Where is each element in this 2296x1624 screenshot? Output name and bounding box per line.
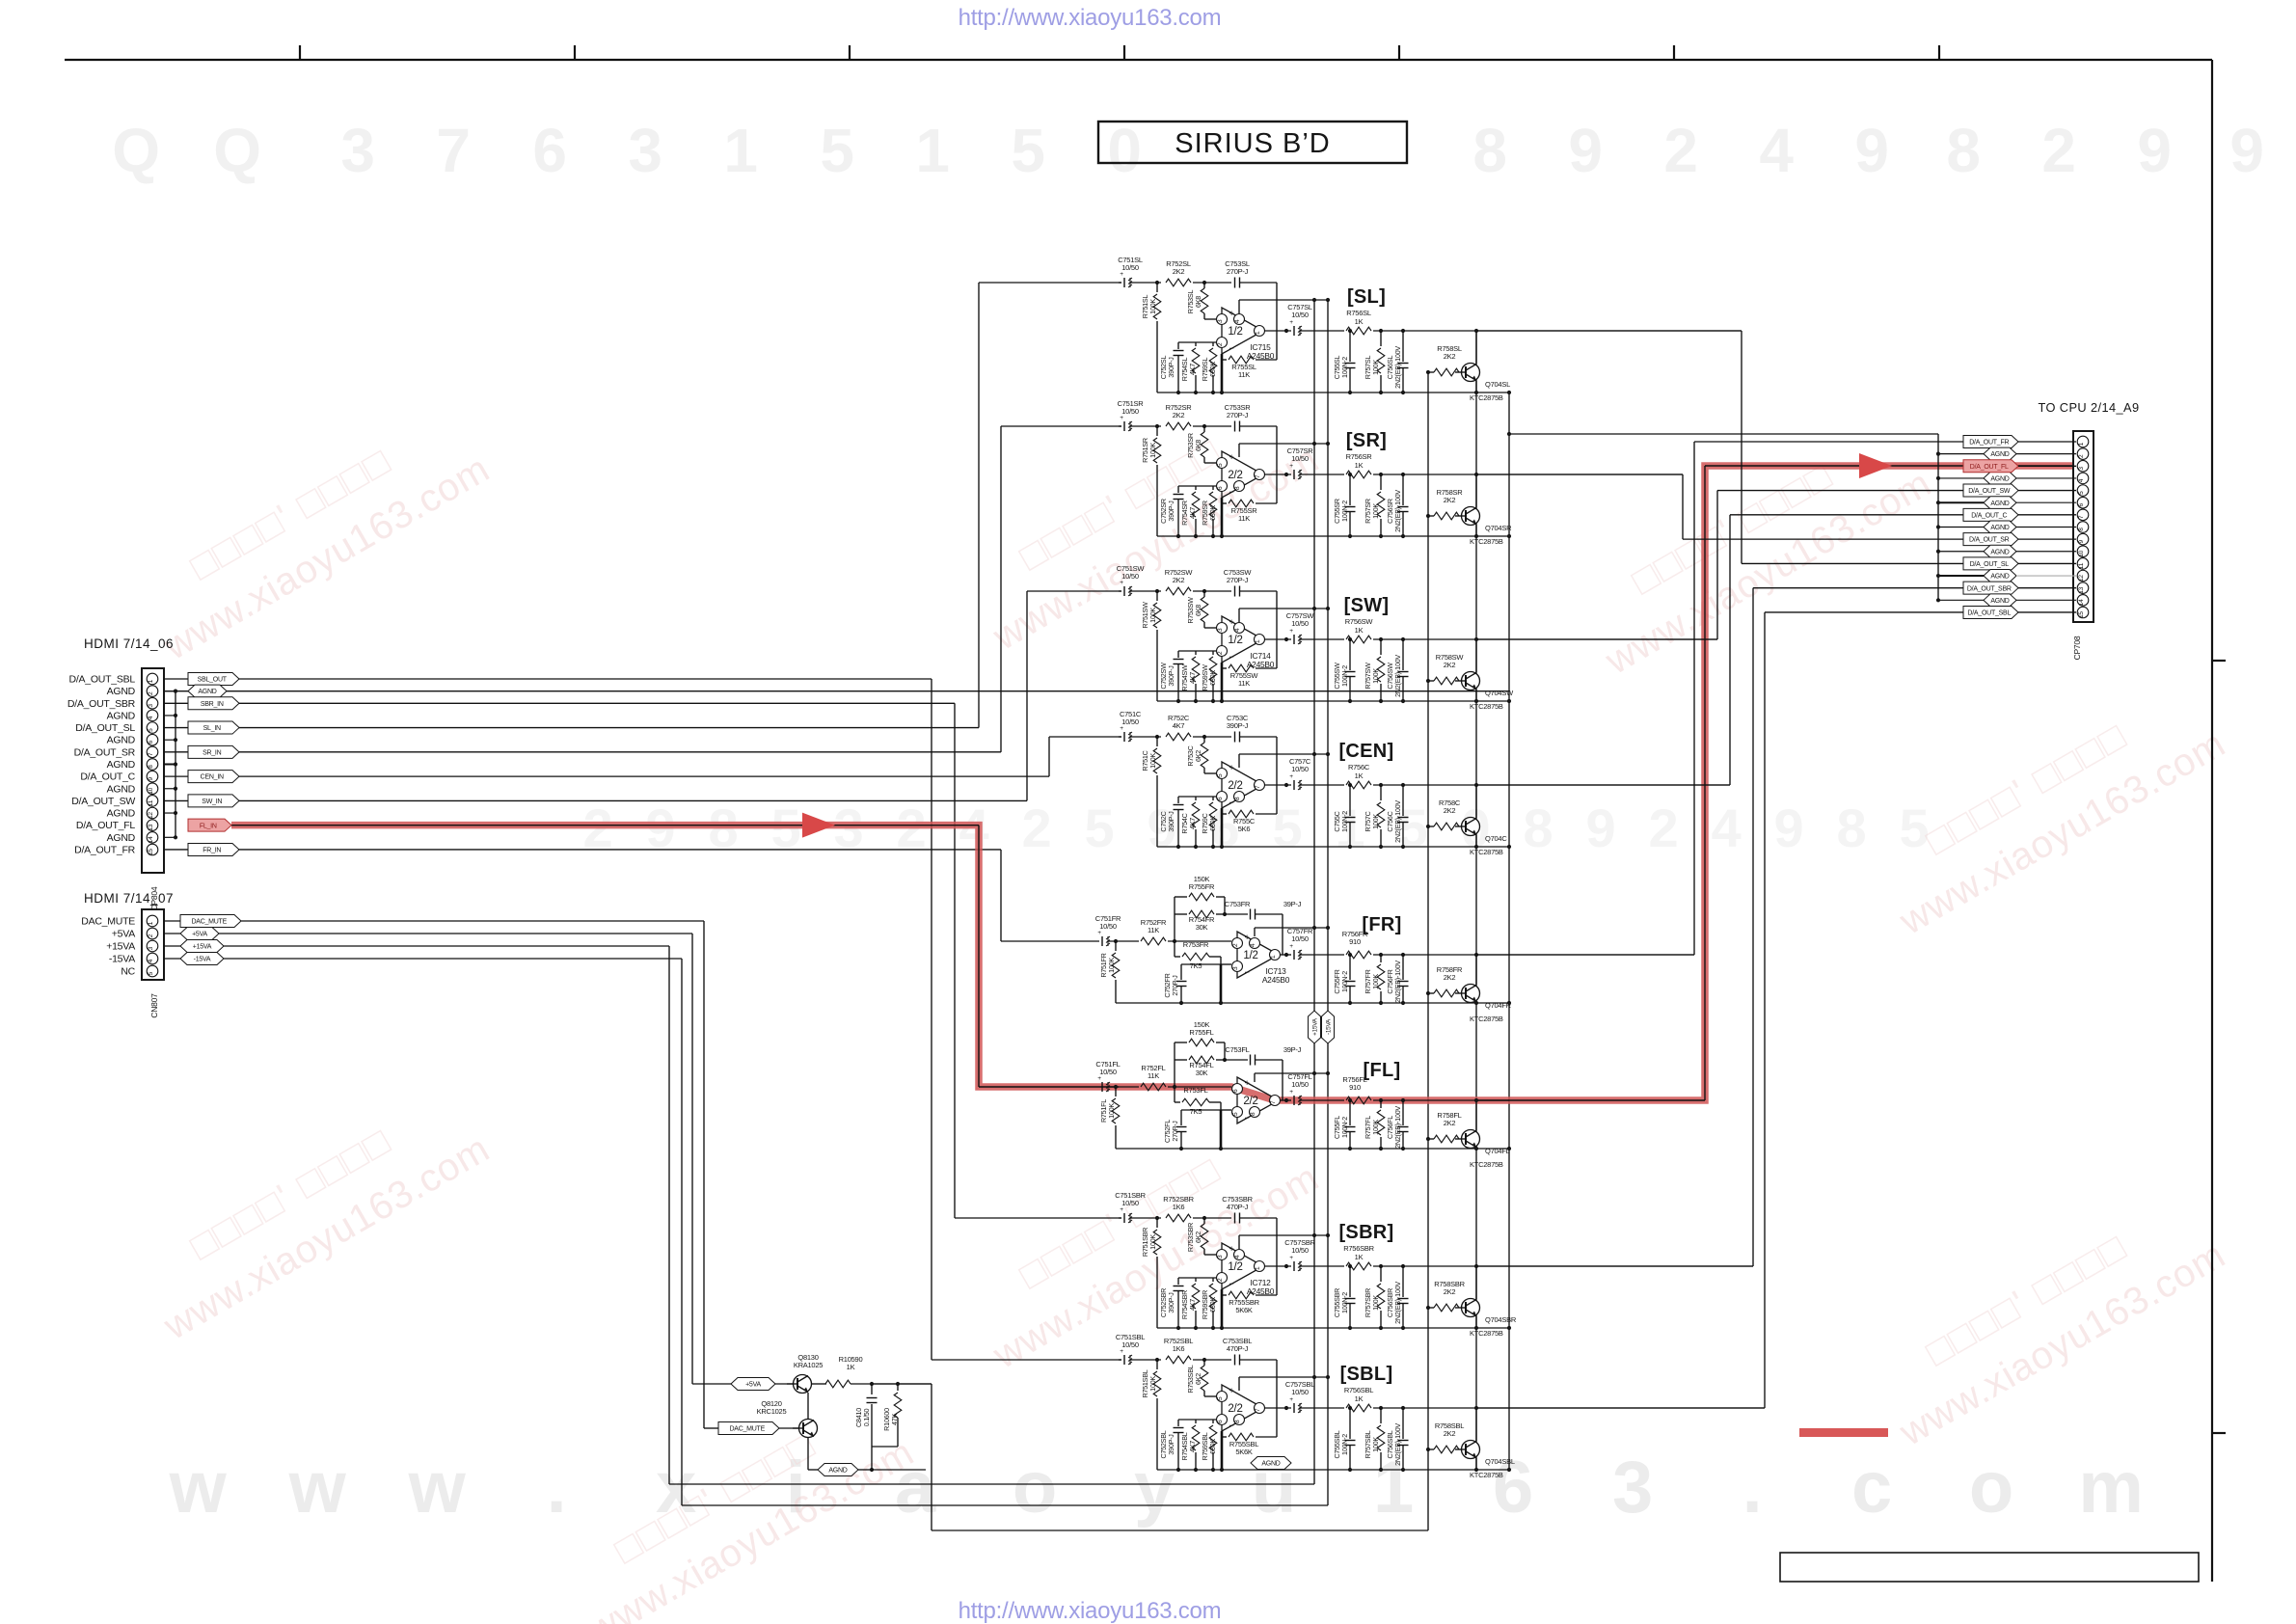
svg-text:2: 2 — [148, 691, 154, 695]
svg-text:100N-2: 100N-2 — [1340, 1434, 1349, 1455]
svg-text:4K7: 4K7 — [1188, 818, 1197, 829]
svg-text:D/A_OUT_FR: D/A_OUT_FR — [74, 844, 136, 855]
svg-text:+: + — [1289, 1396, 1293, 1403]
svg-text:2N2(EB)-100V: 2N2(EB)-100V — [1393, 490, 1402, 532]
svg-text:KTC2875B: KTC2875B — [1470, 848, 1503, 856]
svg-text:Q: Q — [213, 116, 261, 185]
svg-text:7: 7 — [1255, 1408, 1261, 1412]
svg-text:1K6: 1K6 — [1173, 1203, 1185, 1211]
svg-text:c: c — [1851, 1447, 1892, 1529]
svg-text:10: 10 — [148, 787, 154, 794]
svg-text:2N2(EB)-100V: 2N2(EB)-100V — [1393, 1106, 1402, 1149]
svg-text:1: 1 — [1255, 1266, 1261, 1270]
svg-text:910: 910 — [1349, 1083, 1361, 1092]
svg-text:100K: 100K — [1148, 443, 1157, 458]
svg-text:[FR]: [FR] — [1362, 914, 1401, 935]
svg-text:−: − — [1229, 487, 1233, 497]
svg-text:KTC2875B: KTC2875B — [1470, 537, 1503, 546]
svg-text:1: 1 — [1255, 639, 1261, 643]
svg-text:1K: 1K — [1355, 1253, 1364, 1261]
svg-text:+: + — [1120, 725, 1123, 732]
svg-text:+5VA: +5VA — [112, 929, 135, 940]
svg-text:4K7: 4K7 — [1188, 672, 1197, 684]
svg-text:D/A_OUT_SW: D/A_OUT_SW — [71, 796, 135, 807]
svg-text:DAC_MUTE: DAC_MUTE — [729, 1426, 765, 1433]
svg-text:2: 2 — [1663, 116, 1697, 185]
svg-text:[FL]: [FL] — [1364, 1060, 1401, 1081]
svg-text:3: 3 — [148, 946, 154, 950]
svg-text:2: 2 — [148, 934, 154, 937]
svg-text:7K5: 7K5 — [1190, 1107, 1202, 1116]
svg-text:w: w — [408, 1447, 467, 1529]
svg-text:1/2: 1/2 — [1228, 635, 1242, 646]
svg-text:14: 14 — [148, 836, 154, 843]
svg-text:8: 8 — [1234, 1420, 1241, 1423]
svg-text:AGND: AGND — [107, 710, 136, 721]
svg-text:8: 8 — [1234, 797, 1241, 800]
svg-text:−: − — [1244, 967, 1249, 977]
svg-text:10/50: 10/50 — [1121, 263, 1139, 272]
svg-text:Q: Q — [112, 116, 160, 185]
svg-text:2K2: 2K2 — [1444, 661, 1456, 669]
svg-text:1: 1 — [2078, 442, 2085, 446]
svg-text:AGND: AGND — [107, 832, 136, 844]
svg-text:1: 1 — [915, 116, 949, 185]
svg-text:AGND: AGND — [1990, 549, 2009, 555]
svg-text:2: 2 — [1232, 943, 1239, 947]
svg-text:10/50: 10/50 — [1291, 934, 1309, 943]
svg-text:AGND: AGND — [107, 783, 136, 795]
svg-text:+: + — [1289, 773, 1293, 780]
svg-text:8: 8 — [2078, 528, 2085, 531]
svg-text:1K: 1K — [1355, 771, 1364, 780]
svg-text:D/A_OUT_C: D/A_OUT_C — [1971, 512, 2007, 519]
svg-text:SBR_IN: SBR_IN — [201, 701, 224, 708]
svg-text:Q704SW: Q704SW — [1485, 689, 1514, 697]
svg-text:390P-J: 390P-J — [1167, 501, 1175, 522]
svg-text:A245B0: A245B0 — [1247, 660, 1275, 669]
svg-text:10/50: 10/50 — [1291, 454, 1309, 463]
svg-text:2K2: 2K2 — [1173, 267, 1185, 276]
svg-text:10/50: 10/50 — [1099, 1068, 1117, 1076]
svg-text:−: − — [1229, 1421, 1233, 1430]
svg-text:100N-2: 100N-2 — [1340, 971, 1349, 992]
svg-text:2K2: 2K2 — [1444, 1119, 1456, 1127]
svg-text:3: 3 — [1217, 628, 1224, 632]
svg-text:2K2: 2K2 — [1444, 973, 1456, 982]
svg-text:3: 3 — [628, 116, 662, 185]
svg-text:100N-2: 100N-2 — [1340, 501, 1349, 522]
svg-text:270P-J: 270P-J — [1171, 1121, 1179, 1142]
svg-text:2/2: 2/2 — [1228, 470, 1242, 481]
svg-text:5: 5 — [1398, 798, 1428, 858]
svg-text:SW_IN: SW_IN — [202, 798, 222, 805]
svg-text:KRA1025: KRA1025 — [794, 1361, 823, 1369]
svg-text:+15VA: +15VA — [193, 944, 212, 951]
svg-text:5K6K: 5K6K — [1235, 1448, 1253, 1456]
svg-text:11K: 11K — [1238, 679, 1250, 688]
svg-text:100N-2: 100N-2 — [1340, 1117, 1349, 1138]
svg-text:680K: 680K — [1208, 1439, 1217, 1454]
svg-text:9: 9 — [2078, 539, 2085, 543]
svg-text:8: 8 — [1472, 116, 1506, 185]
svg-text:1K: 1K — [1355, 1394, 1364, 1403]
svg-text:8: 8 — [1250, 1112, 1256, 1116]
svg-text:AGND: AGND — [107, 808, 136, 820]
svg-text:15: 15 — [2078, 611, 2085, 618]
svg-text:6K2: 6K2 — [1194, 750, 1202, 762]
svg-text:[SBL]: [SBL] — [1340, 1364, 1393, 1385]
svg-text:http://www.xiaoyu163.com: http://www.xiaoyu163.com — [959, 1598, 1222, 1624]
svg-text:1K: 1K — [1355, 461, 1364, 470]
svg-text:6: 6 — [148, 741, 154, 744]
svg-text:CEN_IN: CEN_IN — [201, 774, 224, 781]
svg-text:Q704C: Q704C — [1485, 834, 1507, 843]
svg-text:2N2(EB)-100V: 2N2(EB)-100V — [1393, 655, 1402, 697]
svg-text:6K2: 6K2 — [1194, 1373, 1202, 1385]
svg-text:4: 4 — [1234, 319, 1241, 323]
svg-text:D/A_OUT_SR: D/A_OUT_SR — [74, 746, 136, 758]
svg-text:1K6: 1K6 — [1173, 1344, 1185, 1353]
svg-text:CP708: CP708 — [2072, 636, 2082, 660]
svg-text:8: 8 — [1524, 798, 1553, 858]
svg-text:Q704SR: Q704SR — [1485, 524, 1512, 532]
svg-text:AGND: AGND — [1990, 525, 2009, 531]
svg-text:D/A_OUT_FR: D/A_OUT_FR — [1969, 440, 2009, 447]
svg-text:1/2: 1/2 — [1228, 326, 1242, 338]
svg-text:1K: 1K — [847, 1363, 855, 1371]
svg-text:+: + — [1120, 1206, 1123, 1213]
svg-text:6K2: 6K2 — [1194, 1232, 1202, 1243]
svg-text:4: 4 — [1250, 943, 1256, 947]
svg-text:100N-2: 100N-2 — [1340, 357, 1349, 378]
svg-text:5: 5 — [148, 971, 154, 975]
svg-text:13: 13 — [2078, 586, 2085, 593]
svg-text:AGND: AGND — [1990, 574, 2009, 581]
svg-text:5: 5 — [2078, 491, 2085, 495]
svg-text:14: 14 — [2078, 599, 2085, 606]
svg-text:0.1/50: 0.1/50 — [862, 1409, 871, 1427]
svg-text:2K2: 2K2 — [1444, 1429, 1456, 1438]
svg-text:KTC2875B: KTC2875B — [1470, 1329, 1503, 1338]
svg-text:2K2: 2K2 — [1173, 576, 1185, 584]
svg-text:A245B0: A245B0 — [1247, 1286, 1275, 1296]
svg-text:270P-J: 270P-J — [1227, 411, 1249, 420]
svg-text:390P-J: 390P-J — [1167, 357, 1175, 378]
svg-text:[CEN]: [CEN] — [1338, 741, 1393, 762]
svg-text:y: y — [1134, 1447, 1175, 1529]
svg-text:3: 3 — [148, 704, 154, 708]
svg-text:1: 1 — [1255, 331, 1261, 335]
svg-text:100K: 100K — [1148, 1376, 1157, 1392]
svg-text:D/A_OUT_SW: D/A_OUT_SW — [1968, 488, 2011, 495]
svg-text:5: 5 — [1232, 1112, 1239, 1116]
svg-text:1/2: 1/2 — [1228, 1261, 1242, 1273]
svg-text:+: + — [1120, 415, 1123, 421]
svg-text:KTC2875B: KTC2875B — [1470, 702, 1503, 711]
svg-text:7: 7 — [436, 116, 470, 185]
svg-text:9: 9 — [2137, 116, 2171, 185]
svg-text:D/A_OUT_SBR: D/A_OUT_SBR — [1967, 585, 2012, 592]
svg-text:6: 6 — [1217, 1420, 1224, 1423]
svg-text:AGND: AGND — [1990, 598, 2009, 605]
svg-text:9: 9 — [1854, 116, 1888, 185]
svg-text:100N-2: 100N-2 — [1340, 811, 1349, 832]
svg-text:9: 9 — [2229, 116, 2263, 185]
svg-text:+: + — [1097, 1075, 1101, 1082]
svg-text:39P-J: 39P-J — [1283, 1045, 1302, 1054]
svg-text:100K: 100K — [1148, 753, 1157, 769]
svg-text:7: 7 — [1255, 474, 1261, 478]
svg-text:3: 3 — [1232, 966, 1239, 970]
svg-text:Q704SBL: Q704SBL — [1485, 1457, 1515, 1466]
svg-text:D/A_OUT_FL: D/A_OUT_FL — [76, 820, 136, 831]
svg-text:[SW]: [SW] — [1344, 595, 1390, 616]
svg-text:5: 5 — [1011, 116, 1044, 185]
svg-text:.: . — [1742, 1447, 1763, 1529]
svg-text:KRC1025: KRC1025 — [757, 1407, 787, 1416]
svg-text:1: 1 — [148, 679, 154, 683]
svg-text:2: 2 — [1217, 342, 1224, 346]
svg-text:10/50: 10/50 — [1291, 619, 1309, 628]
svg-text:D/A_OUT_FL: D/A_OUT_FL — [1970, 464, 2009, 471]
svg-text:3: 3 — [1217, 319, 1224, 323]
svg-text:10/50: 10/50 — [1099, 922, 1117, 931]
svg-text:KTC2875B: KTC2875B — [1470, 1160, 1503, 1169]
svg-text:270P-J: 270P-J — [1227, 267, 1249, 276]
svg-text:D/A_OUT_SBR: D/A_OUT_SBR — [68, 698, 136, 710]
svg-text:100K: 100K — [1371, 1120, 1380, 1135]
svg-text:-15VA: -15VA — [1325, 1018, 1332, 1035]
svg-text:6: 6 — [1217, 486, 1224, 490]
svg-text:4: 4 — [1234, 628, 1241, 632]
svg-text:390P-J: 390P-J — [1167, 665, 1175, 687]
svg-text:30K: 30K — [1196, 923, 1208, 932]
svg-text:5: 5 — [1217, 773, 1224, 777]
svg-text:2K2: 2K2 — [1173, 411, 1185, 420]
svg-text:KTC2875B: KTC2875B — [1470, 393, 1503, 402]
svg-text:1: 1 — [723, 116, 757, 185]
svg-text:D/A_OUT_SL: D/A_OUT_SL — [1970, 561, 2010, 568]
svg-text:100K: 100K — [1148, 1234, 1157, 1250]
svg-text:4: 4 — [2078, 478, 2085, 482]
svg-text:11K: 11K — [1148, 926, 1159, 934]
svg-text:8: 8 — [1946, 116, 1980, 185]
svg-text:FR_IN: FR_IN — [203, 848, 221, 854]
svg-text:9: 9 — [1568, 116, 1602, 185]
svg-text:7: 7 — [1270, 1100, 1277, 1104]
svg-text:[SL]: [SL] — [1347, 286, 1386, 308]
svg-text:4: 4 — [1234, 1255, 1241, 1259]
svg-text:7: 7 — [1255, 785, 1261, 789]
svg-text:2K2: 2K2 — [1444, 806, 1456, 815]
svg-text:0: 0 — [1107, 116, 1141, 185]
svg-text:910: 910 — [1349, 937, 1361, 946]
svg-text:6: 6 — [2078, 503, 2085, 507]
svg-text:[SBR]: [SBR] — [1338, 1222, 1393, 1243]
svg-text:A245B0: A245B0 — [1247, 351, 1275, 361]
svg-text:5K6K: 5K6K — [1235, 1306, 1253, 1314]
svg-text:100K: 100K — [1371, 1437, 1380, 1452]
svg-text:11K: 11K — [1238, 514, 1250, 523]
svg-text:7: 7 — [148, 752, 154, 756]
svg-text:100K: 100K — [1371, 814, 1380, 829]
svg-text:AGND: AGND — [107, 735, 136, 746]
svg-text:D/A_OUT_SBL: D/A_OUT_SBL — [1967, 610, 2011, 617]
svg-text:2/2: 2/2 — [1243, 1096, 1257, 1107]
svg-text:+: + — [1229, 763, 1233, 772]
svg-text:R753FL: R753FL — [1183, 1086, 1207, 1095]
svg-text:5: 5 — [148, 728, 154, 732]
svg-text:13: 13 — [148, 824, 154, 830]
svg-text:+: + — [1229, 1244, 1233, 1254]
svg-text:4K7: 4K7 — [1188, 1299, 1197, 1311]
svg-text:R753FR: R753FR — [1183, 940, 1209, 949]
svg-text:+: + — [1244, 933, 1249, 942]
svg-text:D/A_OUT_SBL: D/A_OUT_SBL — [69, 674, 136, 686]
svg-text:R756C: R756C — [1348, 763, 1370, 771]
svg-text:100K: 100K — [1371, 503, 1380, 519]
svg-text:R756SW: R756SW — [1345, 617, 1374, 626]
svg-text:8: 8 — [1234, 486, 1241, 490]
svg-text:+: + — [1289, 319, 1293, 326]
svg-text:o: o — [1969, 1447, 2013, 1529]
svg-text:-15VA: -15VA — [194, 957, 211, 963]
svg-text:NC: NC — [121, 966, 135, 978]
svg-text:Q704SBR: Q704SBR — [1485, 1315, 1517, 1324]
svg-text:DAC_MUTE: DAC_MUTE — [81, 916, 135, 928]
svg-text:AGND: AGND — [107, 759, 136, 771]
svg-text:http://www.xiaoyu163.com: http://www.xiaoyu163.com — [959, 5, 1222, 31]
svg-text:680K: 680K — [1208, 1297, 1217, 1313]
svg-text:2K2: 2K2 — [1444, 352, 1456, 361]
svg-text:8: 8 — [1837, 798, 1867, 858]
svg-text:5: 5 — [1085, 798, 1115, 858]
svg-text:+: + — [1120, 580, 1123, 586]
svg-text:11: 11 — [2078, 562, 2085, 569]
svg-text:10: 10 — [2078, 550, 2085, 556]
svg-text:2N2(EB)-100V: 2N2(EB)-100V — [1393, 1423, 1402, 1466]
svg-text:HDMI 7/14_06: HDMI 7/14_06 — [84, 636, 174, 651]
svg-text:470P-J: 470P-J — [1227, 1344, 1249, 1353]
svg-text:Q704SL: Q704SL — [1485, 380, 1510, 389]
svg-text:4: 4 — [148, 959, 154, 962]
svg-text:11K: 11K — [1238, 370, 1250, 379]
svg-text:m: m — [2078, 1447, 2143, 1529]
svg-text:−: − — [1229, 652, 1233, 662]
svg-text:12: 12 — [148, 812, 154, 819]
svg-text:100K: 100K — [1107, 958, 1116, 973]
svg-text:+15VA: +15VA — [1311, 1017, 1318, 1036]
svg-text:R756SBL: R756SBL — [1344, 1386, 1373, 1394]
svg-text:w: w — [288, 1447, 347, 1529]
svg-text:15: 15 — [148, 849, 154, 855]
svg-text:6: 6 — [1232, 1089, 1239, 1093]
svg-text:2K2: 2K2 — [1444, 496, 1456, 504]
svg-text:3: 3 — [2078, 467, 2085, 471]
svg-text:2N2(EB)-100V: 2N2(EB)-100V — [1393, 800, 1402, 843]
svg-text:680K: 680K — [1208, 505, 1217, 521]
svg-text:+5VA: +5VA — [745, 1382, 761, 1389]
svg-text:11: 11 — [148, 799, 154, 806]
svg-text:KTC2875B: KTC2875B — [1470, 1471, 1503, 1479]
svg-text:100K: 100K — [1371, 668, 1380, 684]
svg-text:7: 7 — [2078, 515, 2085, 519]
svg-text:390P-J: 390P-J — [1167, 1434, 1175, 1455]
svg-text:HDMI 7/14_07: HDMI 7/14_07 — [84, 891, 174, 906]
svg-text:10/50: 10/50 — [1291, 1080, 1309, 1089]
svg-text:+: + — [1244, 1078, 1249, 1088]
svg-text:R756SBR: R756SBR — [1343, 1244, 1374, 1253]
svg-text:4: 4 — [1759, 116, 1794, 185]
svg-text:−: − — [1244, 1113, 1249, 1123]
svg-text:w: w — [169, 1447, 228, 1529]
svg-text:6K8: 6K8 — [1194, 440, 1202, 451]
svg-text:D/A_OUT_SL: D/A_OUT_SL — [75, 722, 135, 734]
svg-text:100K: 100K — [1371, 974, 1380, 989]
svg-text:6K8: 6K8 — [1194, 605, 1202, 616]
svg-text:+: + — [1289, 1089, 1293, 1096]
svg-text:D/A_OUT_C: D/A_OUT_C — [80, 771, 135, 783]
svg-text:+15VA: +15VA — [106, 941, 135, 953]
svg-text:8: 8 — [148, 765, 154, 769]
svg-text:680K: 680K — [1208, 670, 1217, 686]
svg-text:470P-J: 470P-J — [1227, 1203, 1249, 1211]
svg-text:2/2: 2/2 — [1228, 780, 1242, 792]
svg-text:-15VA: -15VA — [109, 954, 135, 965]
svg-text:+: + — [1229, 309, 1233, 318]
svg-text:R756SL: R756SL — [1346, 309, 1371, 317]
svg-text:10/50: 10/50 — [1291, 1246, 1309, 1255]
svg-text:10/50: 10/50 — [1291, 1388, 1309, 1396]
svg-text:10/50: 10/50 — [1121, 1340, 1139, 1349]
svg-text:R756SR: R756SR — [1346, 452, 1373, 461]
svg-text:1K: 1K — [1355, 626, 1364, 635]
svg-text:10/50: 10/50 — [1121, 572, 1139, 581]
svg-text:2N2(EB)-100V: 2N2(EB)-100V — [1393, 1282, 1402, 1324]
svg-text:10/50: 10/50 — [1121, 1199, 1139, 1207]
svg-text:2/2: 2/2 — [1228, 1403, 1242, 1415]
svg-text:390P-J: 390P-J — [1167, 811, 1175, 832]
svg-text:A245B0: A245B0 — [1262, 975, 1290, 985]
svg-text:−: − — [1229, 343, 1233, 353]
svg-text:Q704FL: Q704FL — [1485, 1147, 1510, 1155]
svg-text:5K6: 5K6 — [1238, 825, 1251, 833]
svg-text:AGND: AGND — [198, 689, 216, 695]
svg-text:39P-J: 39P-J — [1283, 900, 1302, 908]
svg-text:6: 6 — [532, 116, 566, 185]
svg-text:AGND: AGND — [1990, 501, 2009, 507]
svg-text:4: 4 — [1712, 798, 1742, 858]
svg-text:+: + — [1289, 943, 1293, 950]
svg-text:+: + — [1289, 628, 1293, 635]
svg-text:SL_IN: SL_IN — [203, 725, 221, 732]
svg-text:[SR]: [SR] — [1346, 430, 1387, 451]
svg-text:4K7: 4K7 — [1188, 364, 1197, 375]
svg-text:1K: 1K — [1355, 317, 1364, 326]
svg-text:10/50: 10/50 — [1291, 311, 1309, 319]
svg-text:680K: 680K — [1208, 362, 1217, 377]
svg-text:R755FR: R755FR — [1189, 882, 1215, 891]
svg-text:9: 9 — [148, 776, 154, 780]
svg-text:2: 2 — [1217, 651, 1224, 655]
svg-text:4K7: 4K7 — [1173, 721, 1185, 730]
svg-text:1: 1 — [148, 921, 154, 925]
svg-text:4K7: 4K7 — [1188, 507, 1197, 519]
svg-text:+: + — [1120, 1348, 1123, 1355]
svg-text:+5VA: +5VA — [192, 932, 207, 938]
svg-text:AGND: AGND — [107, 686, 136, 697]
